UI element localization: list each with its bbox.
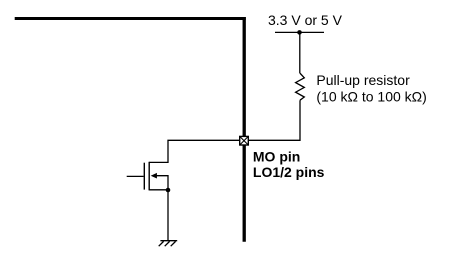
junction dot on VDD rail bbox=[297, 30, 302, 35]
svg-text:MO pin: MO pin bbox=[253, 149, 300, 165]
source bottom lead bbox=[149, 189, 168, 191]
ground bbox=[159, 241, 178, 247]
node VDD power rail bbox=[275, 31, 324, 33]
wire VDD rail to resistor top bbox=[299, 32, 301, 73]
IC boundary top thick line bbox=[15, 17, 246, 20]
svg-text:Pull-up resistor: Pull-up resistor bbox=[316, 72, 410, 88]
body arrowhead bbox=[151, 173, 157, 179]
IC boundary vertical thick line bbox=[243, 17, 246, 242]
svg-text:3.3 V or 5 V: 3.3 V or 5 V bbox=[268, 12, 343, 28]
transistor Q1 N-ch open-drain MOSFET bbox=[127, 162, 171, 193]
svg-text:LO1/2 pins: LO1/2 pins bbox=[253, 164, 325, 180]
wire source to ground bbox=[167, 190, 169, 240]
pin MO / LO1/2 (crossed box terminal) bbox=[240, 136, 249, 145]
source junction dot bbox=[166, 188, 171, 193]
channel bar bbox=[148, 162, 150, 191]
svg-text:(10 kΩ to 100 kΩ): (10 kΩ to 100 kΩ) bbox=[316, 89, 426, 105]
wire MO pin to transistor drain bbox=[149, 140, 239, 162]
gate bar bbox=[143, 163, 145, 190]
wire resistor bottom to MO pin bbox=[249, 100, 301, 140]
resistor pull-up (zigzag) bbox=[296, 73, 305, 100]
body arrow line bbox=[156, 176, 168, 190]
gate lead bbox=[127, 175, 144, 177]
